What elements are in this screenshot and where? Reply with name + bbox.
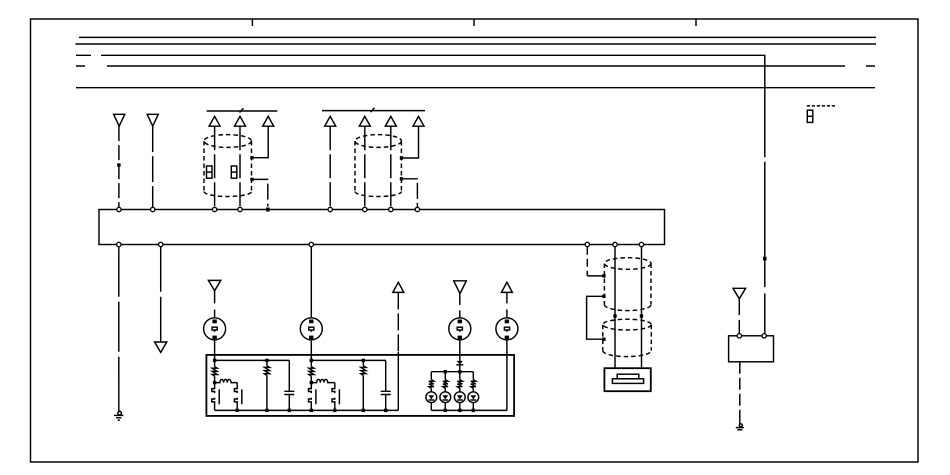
node sub2 entry dot xyxy=(310,359,313,362)
junction dot xyxy=(400,177,403,180)
component A dashed cylinder xyxy=(204,135,252,197)
contact element E1 xyxy=(212,383,219,411)
wire vertical drop from bus line 3 to connector box xyxy=(764,55,766,334)
component B arrow 2 xyxy=(359,116,370,126)
wire led top rail xyxy=(431,371,473,373)
component A bracket xyxy=(207,110,278,112)
resistor block step upper xyxy=(617,374,639,379)
pin circle xyxy=(737,334,741,338)
junction dot at bus xyxy=(266,208,270,212)
wire bus through coils left xyxy=(614,247,616,369)
diode D1 xyxy=(456,361,463,365)
lamp LED2 xyxy=(440,392,451,403)
wire connector box to ground G2 xyxy=(739,362,741,418)
wire gauge 2 to box xyxy=(310,340,312,361)
wire bus line 5 xyxy=(76,87,875,89)
connector arrow T2 xyxy=(147,114,158,126)
junction dot xyxy=(265,359,268,362)
lamp LED4 xyxy=(468,392,479,403)
resistor R5 xyxy=(429,372,434,392)
resistor R2 xyxy=(265,360,270,410)
pin circle xyxy=(415,207,419,211)
pin circle xyxy=(238,207,242,211)
component A pin connector 1 xyxy=(207,166,213,178)
wire T2 to bus xyxy=(152,126,154,207)
capacitor C1 xyxy=(284,360,294,410)
junction dot on vertical drop xyxy=(763,257,767,261)
junction dot xyxy=(333,409,336,412)
contact element E4 xyxy=(332,383,339,411)
pin circle xyxy=(117,207,121,211)
wire bus to arrow xyxy=(160,247,162,336)
component B wire 2 xyxy=(364,126,366,207)
node sub1 entry dot xyxy=(213,359,216,362)
cluster box U1 xyxy=(206,355,514,416)
coil dashed cylinder 2 xyxy=(603,319,652,356)
junction dot xyxy=(310,381,313,384)
inductor L1 xyxy=(215,379,238,382)
connector C901 dashed lead xyxy=(807,105,835,107)
junction dot xyxy=(458,409,461,412)
junction dot xyxy=(250,178,253,181)
junction dot xyxy=(444,370,447,373)
wire arrow to gauge 3 xyxy=(459,294,461,318)
connector box xyxy=(729,336,774,362)
connector arrow down right xyxy=(733,288,746,299)
component A arrow 1 xyxy=(209,116,220,126)
component B bracket xyxy=(322,110,425,112)
wire bus line 2 xyxy=(76,43,877,45)
gauge symbol 2 xyxy=(300,318,322,340)
junction dot xyxy=(613,314,616,317)
sender arrow up 2 xyxy=(501,282,512,292)
pin circle xyxy=(363,207,367,211)
component B jog wire lower xyxy=(402,179,418,208)
resistor R4 xyxy=(361,360,366,410)
component B arrow 3 xyxy=(385,116,396,126)
junction dot xyxy=(602,295,605,298)
component B arrow 4 xyxy=(413,116,424,126)
pin circle xyxy=(212,207,216,211)
junction dot xyxy=(400,156,403,159)
wire arrow to gauge 4 xyxy=(506,292,508,317)
ground G1 xyxy=(114,411,124,420)
component B wire 1 xyxy=(329,126,331,207)
wire jog into coil xyxy=(587,275,604,277)
junction dot xyxy=(362,409,365,412)
resistor R6 xyxy=(443,372,448,392)
component A bracket slash xyxy=(240,108,244,112)
junction dot xyxy=(640,314,643,317)
gauge arrow G3a xyxy=(454,281,467,294)
junction dot xyxy=(602,338,605,341)
component B wire 3 xyxy=(390,126,392,207)
pin circle xyxy=(117,242,121,246)
junction dot xyxy=(288,409,291,412)
junction dot on T1 wire xyxy=(117,163,120,166)
wire sub1 top rail xyxy=(215,359,290,361)
component A jog wire lower xyxy=(252,179,268,206)
resistor R8 xyxy=(471,372,476,392)
wire bus to ground G1 xyxy=(118,247,120,404)
connector C901 xyxy=(807,110,813,122)
ground G2 xyxy=(736,424,744,430)
connector arrow T1 xyxy=(114,114,125,126)
wire U loop left xyxy=(587,296,604,339)
lamp LED1 xyxy=(426,392,437,403)
lamp LED3 xyxy=(454,392,465,403)
contact element E2 xyxy=(234,383,241,411)
component B jog wire upper xyxy=(402,126,419,158)
gauge symbol 4 xyxy=(496,318,518,340)
resistor block step lower xyxy=(612,379,643,384)
wire arrow into box xyxy=(397,292,399,352)
wire bus through coils right xyxy=(641,247,643,369)
gauge arrow G1a xyxy=(208,280,220,290)
wire arrow to connector box xyxy=(738,299,740,334)
wire gauge 3 to diode xyxy=(459,340,461,361)
junction dot xyxy=(362,359,365,362)
wire bus line 3 xyxy=(76,54,765,56)
gauge symbol 3 xyxy=(449,318,471,340)
connector arrow down xyxy=(155,342,167,352)
coil dashed cylinder 1 xyxy=(604,258,651,311)
wire bus to coil unit xyxy=(586,247,588,276)
pin circle xyxy=(585,242,589,246)
wire bus line 1 xyxy=(79,36,876,38)
pin circle xyxy=(159,242,163,246)
junction dot xyxy=(444,409,447,412)
junction dot xyxy=(236,409,239,412)
component A arrow 2 xyxy=(235,116,246,126)
junction dot xyxy=(458,370,461,373)
wire T1 to bus xyxy=(118,126,120,207)
pin circle xyxy=(309,242,313,246)
component A wire 1 xyxy=(214,126,216,207)
wire gauge 1 to box xyxy=(214,340,216,361)
junction dot xyxy=(265,409,268,412)
contact element E3 xyxy=(309,383,316,411)
junction dot xyxy=(472,409,475,412)
wire bus line 4 xyxy=(76,65,875,67)
component B bracket slash xyxy=(371,108,375,112)
resistor block box xyxy=(604,368,650,391)
resistor R3 xyxy=(309,360,314,382)
resistor R1 xyxy=(212,360,217,382)
pin circle xyxy=(762,334,766,338)
main bus junction block xyxy=(99,210,665,245)
inductor L2 xyxy=(311,379,335,382)
pin circle xyxy=(389,207,393,211)
wire bus to gauge 2 xyxy=(310,247,312,318)
component B arrow 1 xyxy=(325,116,336,126)
junction dot xyxy=(310,409,313,412)
capacitor C2 xyxy=(381,360,391,410)
pin circle xyxy=(639,242,643,246)
wires led to bottom rail xyxy=(431,403,473,411)
component A pin connector 2 xyxy=(231,166,237,178)
sender arrow up xyxy=(393,282,404,292)
junction dot xyxy=(384,409,387,412)
junction dot xyxy=(213,381,216,384)
wire sub bottom rail xyxy=(215,409,399,411)
component A arrow 3 xyxy=(263,116,274,126)
pin circle xyxy=(151,207,155,211)
wire sub2 top rail xyxy=(311,359,385,361)
pin circle xyxy=(613,242,617,246)
resistor R7 xyxy=(457,372,462,392)
wire diode to led rail xyxy=(459,365,461,372)
component A wire 2 xyxy=(239,126,241,207)
component B dashed cylinder xyxy=(355,135,401,197)
gauge symbol 1 xyxy=(204,318,226,340)
wire arrow to gauge 1 xyxy=(214,291,216,318)
wire gauge 4 to box rail xyxy=(506,340,508,411)
wire led bottom rail xyxy=(431,409,507,411)
junction dot xyxy=(602,274,605,277)
junction dot xyxy=(250,156,253,159)
component A jog wire upper xyxy=(252,126,268,158)
pin circle xyxy=(328,207,332,211)
